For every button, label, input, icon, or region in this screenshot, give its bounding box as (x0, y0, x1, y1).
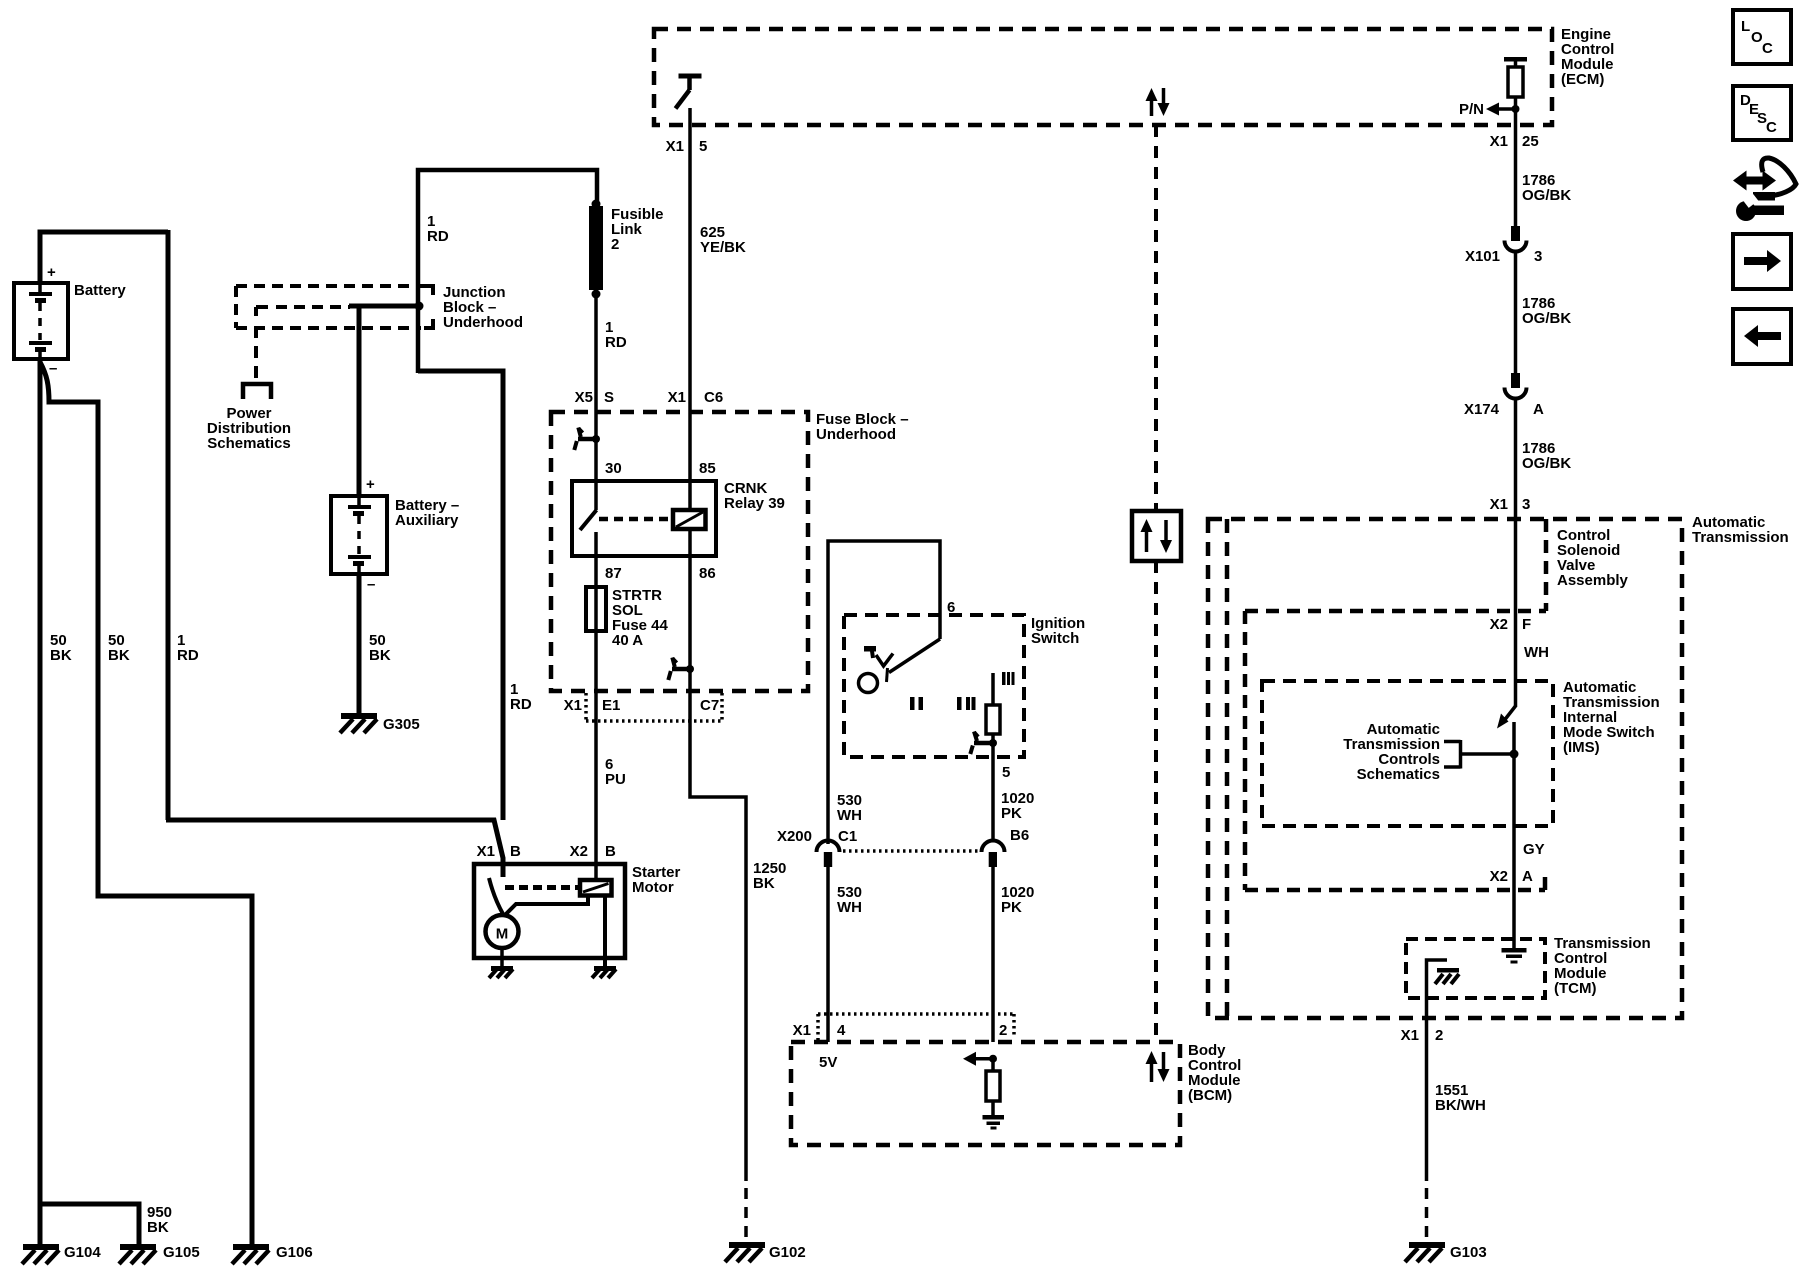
svg-text:+: + (366, 476, 375, 493)
ignition position mark III (1002, 672, 1015, 685)
svg-text:X1: X1 (793, 1022, 811, 1039)
svg-text:WH: WH (837, 807, 862, 824)
relay linkage dashed (599, 517, 671, 522)
ground G102 (725, 1242, 765, 1262)
svg-text:Auxiliary: Auxiliary (395, 512, 459, 529)
dotted connector line X200 (843, 849, 978, 853)
svg-text:B6: B6 (1010, 827, 1029, 844)
dashed wire to G102 (744, 1188, 748, 1242)
svg-text:–: – (49, 360, 57, 377)
connector X1 E1 C7 dotted outline (586, 693, 722, 721)
svg-text:X1: X1 (1401, 1027, 1419, 1044)
svg-text:S: S (604, 389, 614, 406)
dashed line power distribution tap (256, 307, 350, 382)
svg-text:(TCM): (TCM) (1554, 980, 1596, 997)
svg-text:2: 2 (1435, 1027, 1443, 1044)
svg-text:C6: C6 (704, 389, 723, 406)
svg-text:BK/WH: BK/WH (1435, 1097, 1486, 1114)
icon forward arrow box (1733, 234, 1791, 289)
svg-text:WH: WH (1524, 644, 1549, 661)
svg-text:86: 86 (699, 565, 716, 582)
ground starter motor left (489, 966, 513, 978)
automatic transmission outer dashed box (1208, 519, 1682, 1018)
svg-text:YE/BK: YE/BK (700, 239, 746, 256)
svg-text:Assembly: Assembly (1557, 572, 1629, 589)
starter contact blade (489, 878, 503, 914)
svg-text:Underhood: Underhood (443, 314, 523, 331)
svg-text:(BCM): (BCM) (1188, 1087, 1232, 1104)
svg-text:85: 85 (699, 460, 716, 477)
svg-text:25: 25 (1522, 133, 1539, 150)
serial data arrows at ECM (1146, 88, 1170, 116)
node junction block feed (415, 302, 424, 311)
ignition resistor (986, 705, 1000, 734)
svg-text:–: – (367, 576, 375, 593)
wire 1 RD fusible link to fuse block (594, 294, 598, 413)
ground G103 (1405, 1242, 1445, 1262)
BCM connector dotted outline (818, 1014, 1014, 1042)
wire 625 YE/BK from ECM X1 5 to fuse block (688, 108, 692, 413)
dashed wire to G103 (1425, 1188, 1429, 1242)
automatic transmission inner dashed line (1225, 519, 1230, 1018)
svg-text:X5: X5 (575, 389, 593, 406)
wire relay 85 from C6 (688, 413, 692, 510)
svg-text:OG/BK: OG/BK (1522, 310, 1571, 327)
svg-text:5V: 5V (819, 1054, 837, 1071)
ignition position mark II (910, 697, 923, 710)
wire 1786 OG/BK X101 to X174 (1514, 250, 1518, 388)
bus clip terminal above C7 (668, 658, 694, 681)
ignition switch dashed box (844, 615, 1024, 757)
ignition start contact wire (991, 673, 995, 705)
svg-text:RD: RD (427, 228, 449, 245)
IMS switch blade with arrow (1497, 706, 1516, 729)
ground G104 (22, 1244, 59, 1264)
wire 1 RD horizontal to starter (166, 820, 503, 877)
svg-text:RD: RD (177, 647, 199, 664)
svg-text:GY: GY (1523, 841, 1545, 858)
svg-text:BK: BK (369, 647, 391, 664)
svg-text:X1: X1 (1490, 133, 1508, 150)
svg-text:(ECM): (ECM) (1561, 71, 1604, 88)
fuse block underhood dashed box (551, 412, 808, 691)
fuse STRTR SOL 44 (586, 587, 606, 631)
svg-text:G106: G106 (276, 1244, 313, 1261)
svg-text:X2: X2 (1490, 616, 1508, 633)
svg-text:G105: G105 (163, 1244, 200, 1261)
wire to junction block node (349, 304, 419, 309)
svg-text:2: 2 (999, 1022, 1007, 1039)
svg-text:C: C (1766, 119, 1777, 136)
svg-text:PK: PK (1001, 805, 1022, 822)
starter solenoid coil (580, 880, 612, 896)
ground G305 (340, 713, 377, 733)
svg-text:OG/BK: OG/BK (1522, 455, 1571, 472)
svg-text:C: C (1762, 40, 1773, 57)
wire 1786 OG/BK ECM to X101 (1514, 125, 1518, 241)
icon LOC box (1733, 10, 1791, 64)
svg-text:3: 3 (1522, 496, 1530, 513)
svg-text:G104: G104 (64, 1244, 101, 1261)
wire 1551 BK/WH to G103 (1425, 1019, 1429, 1181)
svg-text:30: 30 (605, 460, 622, 477)
ignition position mark I II (957, 697, 976, 710)
svg-text:WH: WH (837, 899, 862, 916)
BCM input node (989, 1055, 997, 1063)
wire battery auxiliary to G305 (357, 574, 362, 713)
wire branch to G105 950 BK (42, 1204, 139, 1244)
svg-text:X1: X1 (564, 697, 582, 714)
svg-text:X174: X174 (1464, 401, 1500, 418)
ground G106 (232, 1244, 269, 1264)
ignition switch blade (887, 639, 941, 682)
ignition contact clip (970, 732, 997, 755)
wire fuse block S to relay 30 (594, 413, 598, 510)
svg-text:Underhood: Underhood (816, 426, 896, 443)
svg-text:C7: C7 (700, 697, 719, 714)
off-page connector bracket (power distribution) (243, 384, 271, 399)
TCM internal ground wire (1427, 960, 1448, 1019)
svg-text:Schematics: Schematics (207, 435, 290, 452)
svg-text:BK: BK (147, 1219, 169, 1236)
ignition switch feed box (828, 541, 940, 844)
icon DESC box (1733, 86, 1791, 140)
svg-text:Switch: Switch (1031, 630, 1079, 647)
serial data dashed wire ECM to BCM (1154, 125, 1158, 1042)
svg-text:F: F (1522, 616, 1531, 633)
wire 6 PU fuse to starter solenoid (594, 691, 598, 880)
wire motor to ground (500, 948, 504, 966)
svg-text:87: 87 (605, 565, 622, 582)
connector X200 B6 (arc) (982, 841, 1005, 867)
svg-text:B: B (510, 843, 521, 860)
svg-text:RD: RD (605, 334, 627, 351)
svg-text:RD: RD (510, 696, 532, 713)
inner box below solenoid assembly (1245, 611, 1546, 890)
svg-text:Motor: Motor (632, 879, 674, 896)
wire 1250 BK C7 to G102 (690, 691, 746, 1181)
svg-text:G103: G103 (1450, 1244, 1487, 1261)
wire junction block bottom output (418, 371, 503, 820)
TCM earth ground (1502, 948, 1527, 964)
svg-text:Battery: Battery (74, 282, 126, 299)
svg-text:Relay 39: Relay 39 (724, 495, 785, 512)
BCM pull-up resistor (986, 1058, 1000, 1115)
wire ignition pin 5 down (991, 734, 995, 842)
svg-text:5: 5 (1002, 764, 1010, 781)
svg-text:L: L (1741, 18, 1750, 35)
battery auxiliary B2 (331, 496, 387, 574)
svg-text:Schematics: Schematics (1357, 766, 1440, 783)
svg-text:OG/BK: OG/BK (1522, 187, 1571, 204)
CRNK relay box (572, 481, 716, 556)
wire solenoid right leg to ground (603, 895, 607, 966)
svg-text:M: M (496, 926, 509, 943)
svg-text:(IMS): (IMS) (1563, 739, 1600, 756)
wire battery negative 50 BK to G104 (38, 358, 43, 1244)
svg-text:X1: X1 (1490, 496, 1508, 513)
svg-text:B: B (605, 843, 616, 860)
starter motor box (474, 864, 625, 958)
svg-text:X2: X2 (1490, 868, 1508, 885)
svg-text:BK: BK (108, 647, 130, 664)
dashed corner brackets at junction block (256, 286, 433, 328)
motor M (486, 915, 519, 948)
svg-text:PU: PU (605, 771, 626, 788)
svg-text:P/N: P/N (1459, 101, 1484, 118)
wire WH to IMS (1514, 612, 1518, 707)
icon back arrow box (1733, 309, 1791, 364)
switch inside ECM (676, 74, 702, 109)
junction block underhood outline (418, 170, 597, 373)
connector X200 C1 (arc) (817, 841, 840, 867)
control solenoid valve assembly bracket (1544, 519, 1549, 611)
ground G105 (119, 1244, 156, 1264)
BCM arrow to logic (963, 1052, 993, 1066)
connector X101 (1505, 226, 1527, 252)
ECM dashed box (654, 29, 1552, 125)
svg-text:40 A: 40 A (612, 632, 643, 649)
svg-text:X1: X1 (666, 138, 684, 155)
svg-text:4: 4 (837, 1022, 846, 1039)
svg-text:5: 5 (699, 138, 707, 155)
svg-text:Transmission: Transmission (1692, 529, 1789, 546)
TCM dashed box (1406, 939, 1545, 998)
BCM dashed box (791, 1042, 1180, 1145)
svg-text:2: 2 (611, 236, 619, 253)
svg-text:X101: X101 (1465, 248, 1500, 265)
serial data bidirectional box symbol (1132, 511, 1181, 561)
svg-text:BK: BK (753, 875, 775, 892)
svg-text:A: A (1522, 868, 1533, 885)
BCM earth ground (983, 1115, 1005, 1130)
off-page bracket (AT controls schematics) (1444, 740, 1514, 769)
wire 1 RD vertical x=168 (166, 230, 171, 820)
battery B1 (14, 283, 68, 359)
svg-text:PK: PK (1001, 899, 1022, 916)
svg-text:X200: X200 (777, 828, 812, 845)
bus clip terminal at X5 (574, 428, 600, 451)
TCM chassis ground (1435, 968, 1459, 984)
connector X174 (1505, 373, 1527, 399)
P/N arrow into ECM logic (1486, 103, 1520, 116)
IMS dashed box (1262, 681, 1553, 826)
ECM internal pull-up resistor (1504, 57, 1527, 125)
wire relay 87 to fuse 44 (594, 532, 598, 691)
wire battery positive to top rail (40, 232, 168, 283)
relay coil (673, 510, 706, 529)
starter linkage dashed (505, 885, 581, 890)
ground starter solenoid right (592, 966, 616, 978)
icon double arrow with wrench (1733, 158, 1796, 221)
wire solenoid to motor (504, 895, 588, 916)
wire IMS wiper down (1512, 722, 1516, 948)
svg-text:G102: G102 (769, 1244, 806, 1261)
wire 1786 OG/BK X174 to transmission (1514, 397, 1518, 612)
serial data arrows at BCM (1146, 1051, 1170, 1082)
dashed box around junction block callout (236, 286, 433, 328)
fusible link 2 (589, 200, 603, 299)
relay switch blade (580, 510, 597, 530)
svg-text:A: A (1533, 401, 1544, 418)
svg-text:3: 3 (1534, 248, 1542, 265)
wire battery auxiliary feed (357, 306, 362, 496)
svg-text:C1: C1 (838, 828, 857, 845)
svg-text:E1: E1 (602, 697, 620, 714)
svg-text:X1: X1 (668, 389, 686, 406)
svg-text:G305: G305 (383, 716, 420, 733)
svg-text:+: + (47, 264, 56, 281)
ignition lock cylinder glyph (859, 646, 894, 693)
svg-text:X2: X2 (570, 843, 588, 860)
svg-text:X1: X1 (477, 843, 495, 860)
wire relay 86 down (688, 529, 692, 691)
svg-text:BK: BK (50, 647, 72, 664)
wire branch to second 50 BK (40, 362, 252, 1244)
node IMS wiper (1510, 750, 1519, 759)
